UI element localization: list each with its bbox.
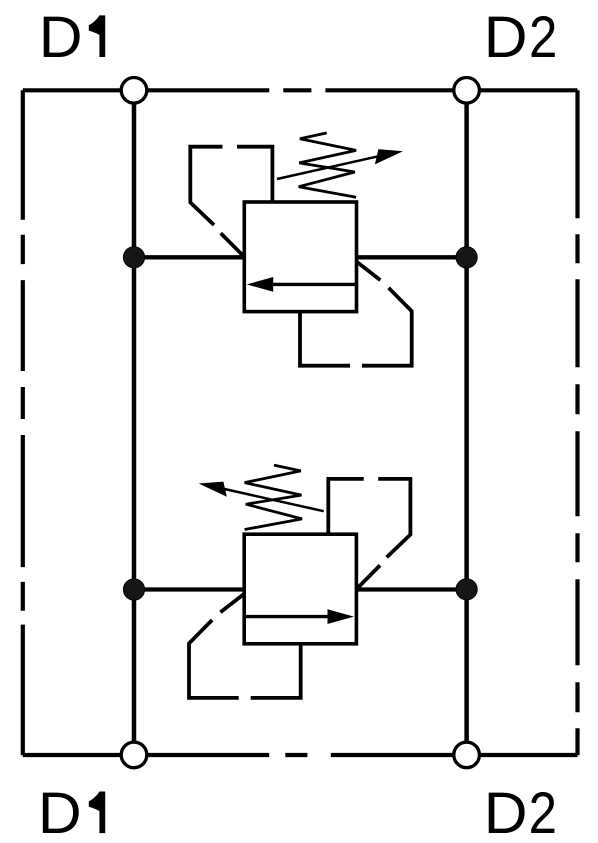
relief valve V2 pilot line (dashed, upper-right) — [328, 479, 363, 534]
port D1 bottom circle — [121, 742, 147, 768]
relief valve V2 adjustment arrow (through spring, up-left) — [220, 488, 324, 511]
port D1 top circle — [121, 78, 147, 104]
wire: port line V2 right (valve to node D2) — [356, 587, 466, 591]
svg-text:2: 2 — [529, 5, 557, 70]
wire: line D2 (right inner vertical) — [464, 104, 469, 742]
port D2 top circle — [454, 78, 480, 104]
relief valve V2 spring — [245, 465, 302, 529]
wire: port line V1 right (valve to node D2) — [357, 255, 467, 259]
svg-text:D: D — [39, 4, 83, 70]
port D2 bottom circle — [454, 742, 480, 768]
svg-text:2: 2 — [529, 781, 557, 843]
relief valve V2 flow arrow (points right) — [244, 615, 335, 618]
relief valve V1 pilot line (dashed, upper-left) — [237, 147, 272, 202]
node D2/V2 junction dot — [456, 579, 477, 600]
node D1/V2 junction dot — [123, 579, 144, 600]
relief valve V1 drain line (dashed, lower-right) — [300, 312, 350, 366]
relief valve V2 body — [244, 534, 356, 644]
wire: bottom boundary left segment (corner to port D1) — [23, 753, 122, 757]
wire: port line V2 left (node D1 to valve) — [134, 587, 244, 591]
wire: left boundary (chain dashed) — [21, 90, 25, 755]
relief valve V1 adjustment arrow (through spring, up-right) — [277, 156, 381, 179]
wire: bottom boundary mid segment (chain dashed, D1 to D2) — [147, 753, 454, 757]
wire: line D1 (left inner vertical) — [132, 104, 137, 742]
relief valve V2 drain line (dashed, lower-left) — [251, 644, 301, 698]
relief valve V1 flow arrow (points left) — [266, 283, 357, 286]
relief valve V1 body — [244, 202, 356, 312]
wire: bottom boundary right segment (port D2 to corner) — [479, 753, 577, 757]
relief valve V1 spring — [299, 133, 356, 197]
wire: top boundary right segment (port D2 to corner) — [479, 88, 577, 92]
wire: port line V1 left (node D1 to valve) — [134, 255, 244, 259]
wire: right boundary (chain dashed) — [575, 90, 579, 755]
node D1/V1 junction dot — [123, 247, 144, 268]
wire: top boundary mid segment (chain dashed, D1 to D2) — [147, 88, 454, 92]
svg-text:D: D — [38, 780, 82, 843]
node D2/V1 junction dot — [456, 247, 477, 268]
svg-text:D: D — [484, 780, 528, 843]
svg-text:D: D — [484, 4, 528, 70]
wire: top boundary left segment (corner to port D1) — [23, 88, 122, 92]
